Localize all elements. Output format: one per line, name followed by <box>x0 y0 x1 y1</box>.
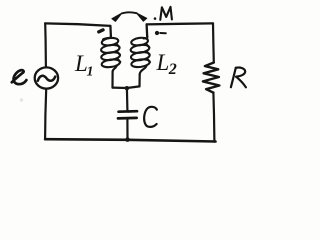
junction blob bottom <box>125 137 130 142</box>
wire left upper <box>44 23 47 67</box>
polarity dash L2 <box>160 32 166 34</box>
mutual coupling arrowhead left <box>112 13 122 21</box>
label M <box>160 7 172 20</box>
svg-text:2: 2 <box>168 61 177 78</box>
stray ink dot left of M <box>154 17 157 20</box>
mutual coupling arrowhead right <box>136 13 146 21</box>
resistor R <box>203 63 220 93</box>
wire bottom <box>45 139 215 141</box>
junction node <box>125 86 129 90</box>
inductor L2 <box>130 36 150 74</box>
label e <box>12 70 27 84</box>
wire L1 bottom lead <box>111 72 113 88</box>
polarity dot L1 <box>99 30 103 32</box>
wire stub L1 <box>109 26 112 36</box>
ac source tilde <box>38 76 55 81</box>
label C <box>144 107 157 127</box>
inductor L1 <box>101 36 121 71</box>
svg-text:L: L <box>156 50 170 75</box>
ac source e <box>35 67 58 88</box>
wire right lower <box>213 93 214 142</box>
capacitor C bottom plate <box>118 117 137 120</box>
wire L2 bottom lead <box>138 74 140 86</box>
wire to capacitor <box>126 88 129 110</box>
faint paper smudge <box>20 98 23 101</box>
label R <box>231 68 246 88</box>
polarity dot L2 <box>155 31 159 35</box>
wire right upper <box>212 23 215 62</box>
capacitor C top plate <box>119 110 137 113</box>
wire stub L2 <box>145 24 148 36</box>
wire top right segment <box>147 23 213 24</box>
wire capacitor to bottom <box>126 119 128 140</box>
mutual coupling arc M <box>122 12 137 13</box>
svg-text:1: 1 <box>87 65 94 80</box>
wire top left segment <box>45 23 110 26</box>
wire left lower <box>45 89 46 139</box>
wire bottom connector <box>113 86 140 88</box>
